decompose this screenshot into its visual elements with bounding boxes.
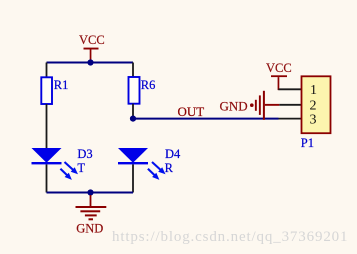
- R6 pin 1: [132, 63, 134, 78]
- GND bar small: [255, 100, 257, 111]
- svg-text:D3: D3: [77, 147, 92, 161]
- D4 cathode bar: [118, 162, 148, 164]
- junction dot on cathode rail: [87, 189, 93, 195]
- GND stem: [90, 195, 92, 207]
- wire OUT: [133, 118, 279, 120]
- resistor R6: [129, 63, 156, 119]
- svg-text:2: 2: [310, 98, 317, 113]
- wire VCC rail (top horizontal): [47, 62, 134, 64]
- svg-text:OUT: OUT: [178, 104, 205, 119]
- P1 body: [302, 76, 331, 133]
- svg-text:3: 3: [310, 113, 317, 128]
- LED D4: [118, 147, 181, 192]
- GND bar 1: [76, 206, 107, 208]
- R1 pin 1: [46, 63, 48, 78]
- GND bar large: [263, 91, 265, 120]
- D3 cathode bar: [32, 162, 62, 164]
- wire cathode rail (bottom horizontal): [47, 192, 134, 194]
- svg-text:D4: D4: [165, 147, 181, 161]
- D4 light emission arrows: [152, 162, 161, 171]
- D3 light emission arrows: [65, 162, 74, 171]
- svg-text:GND: GND: [220, 99, 248, 114]
- svg-text:T: T: [77, 161, 85, 175]
- VCC bar symbol: [271, 75, 287, 77]
- R1 pin 2: [46, 104, 48, 149]
- D4 cathode pin: [132, 164, 134, 192]
- power port VCC (right): [266, 61, 292, 90]
- power port VCC (left): [79, 33, 105, 63]
- svg-text:1: 1: [310, 83, 317, 98]
- GND bar medium: [259, 95, 261, 115]
- R6 pin 2: [132, 104, 134, 119]
- D3 anode triangle: [32, 148, 62, 163]
- connector P1: [301, 76, 331, 150]
- VCC stem: [90, 50, 92, 63]
- svg-text:R: R: [165, 161, 174, 175]
- svg-text:GND: GND: [76, 221, 103, 235]
- GND bar 2: [80, 210, 100, 212]
- GND stem to pin 2: [265, 104, 279, 106]
- svg-text:https://blog.csdn.net/qq_37369: https://blog.csdn.net/qq_37369201: [112, 229, 348, 245]
- D3 cathode pin: [46, 164, 48, 192]
- GND dot: [250, 103, 254, 107]
- svg-text:VCC: VCC: [79, 33, 105, 47]
- svg-text:R6: R6: [141, 78, 156, 92]
- LED D3: [32, 147, 93, 192]
- svg-text:R1: R1: [54, 78, 69, 92]
- VCC bar symbol: [84, 48, 99, 50]
- svg-text:VCC: VCC: [266, 61, 292, 75]
- R1 body: [41, 77, 52, 104]
- svg-text:P1: P1: [301, 136, 314, 150]
- wire to pin 3: [279, 118, 302, 120]
- power port GND (bottom): [76, 195, 107, 235]
- wire to pin 1: [278, 88, 301, 90]
- junction dot node OUT: [130, 116, 136, 122]
- R6 body: [129, 77, 140, 104]
- GND bar 3: [85, 214, 97, 216]
- D4 anode triangle: [118, 148, 148, 163]
- junction dot on VCC rail: [87, 59, 93, 65]
- wire to pin 2: [279, 104, 301, 106]
- VCC stem: [278, 77, 280, 90]
- resistor R1: [41, 63, 68, 149]
- GND bar 4: [89, 218, 94, 220]
- power port GND (right, sideways): [220, 91, 280, 120]
